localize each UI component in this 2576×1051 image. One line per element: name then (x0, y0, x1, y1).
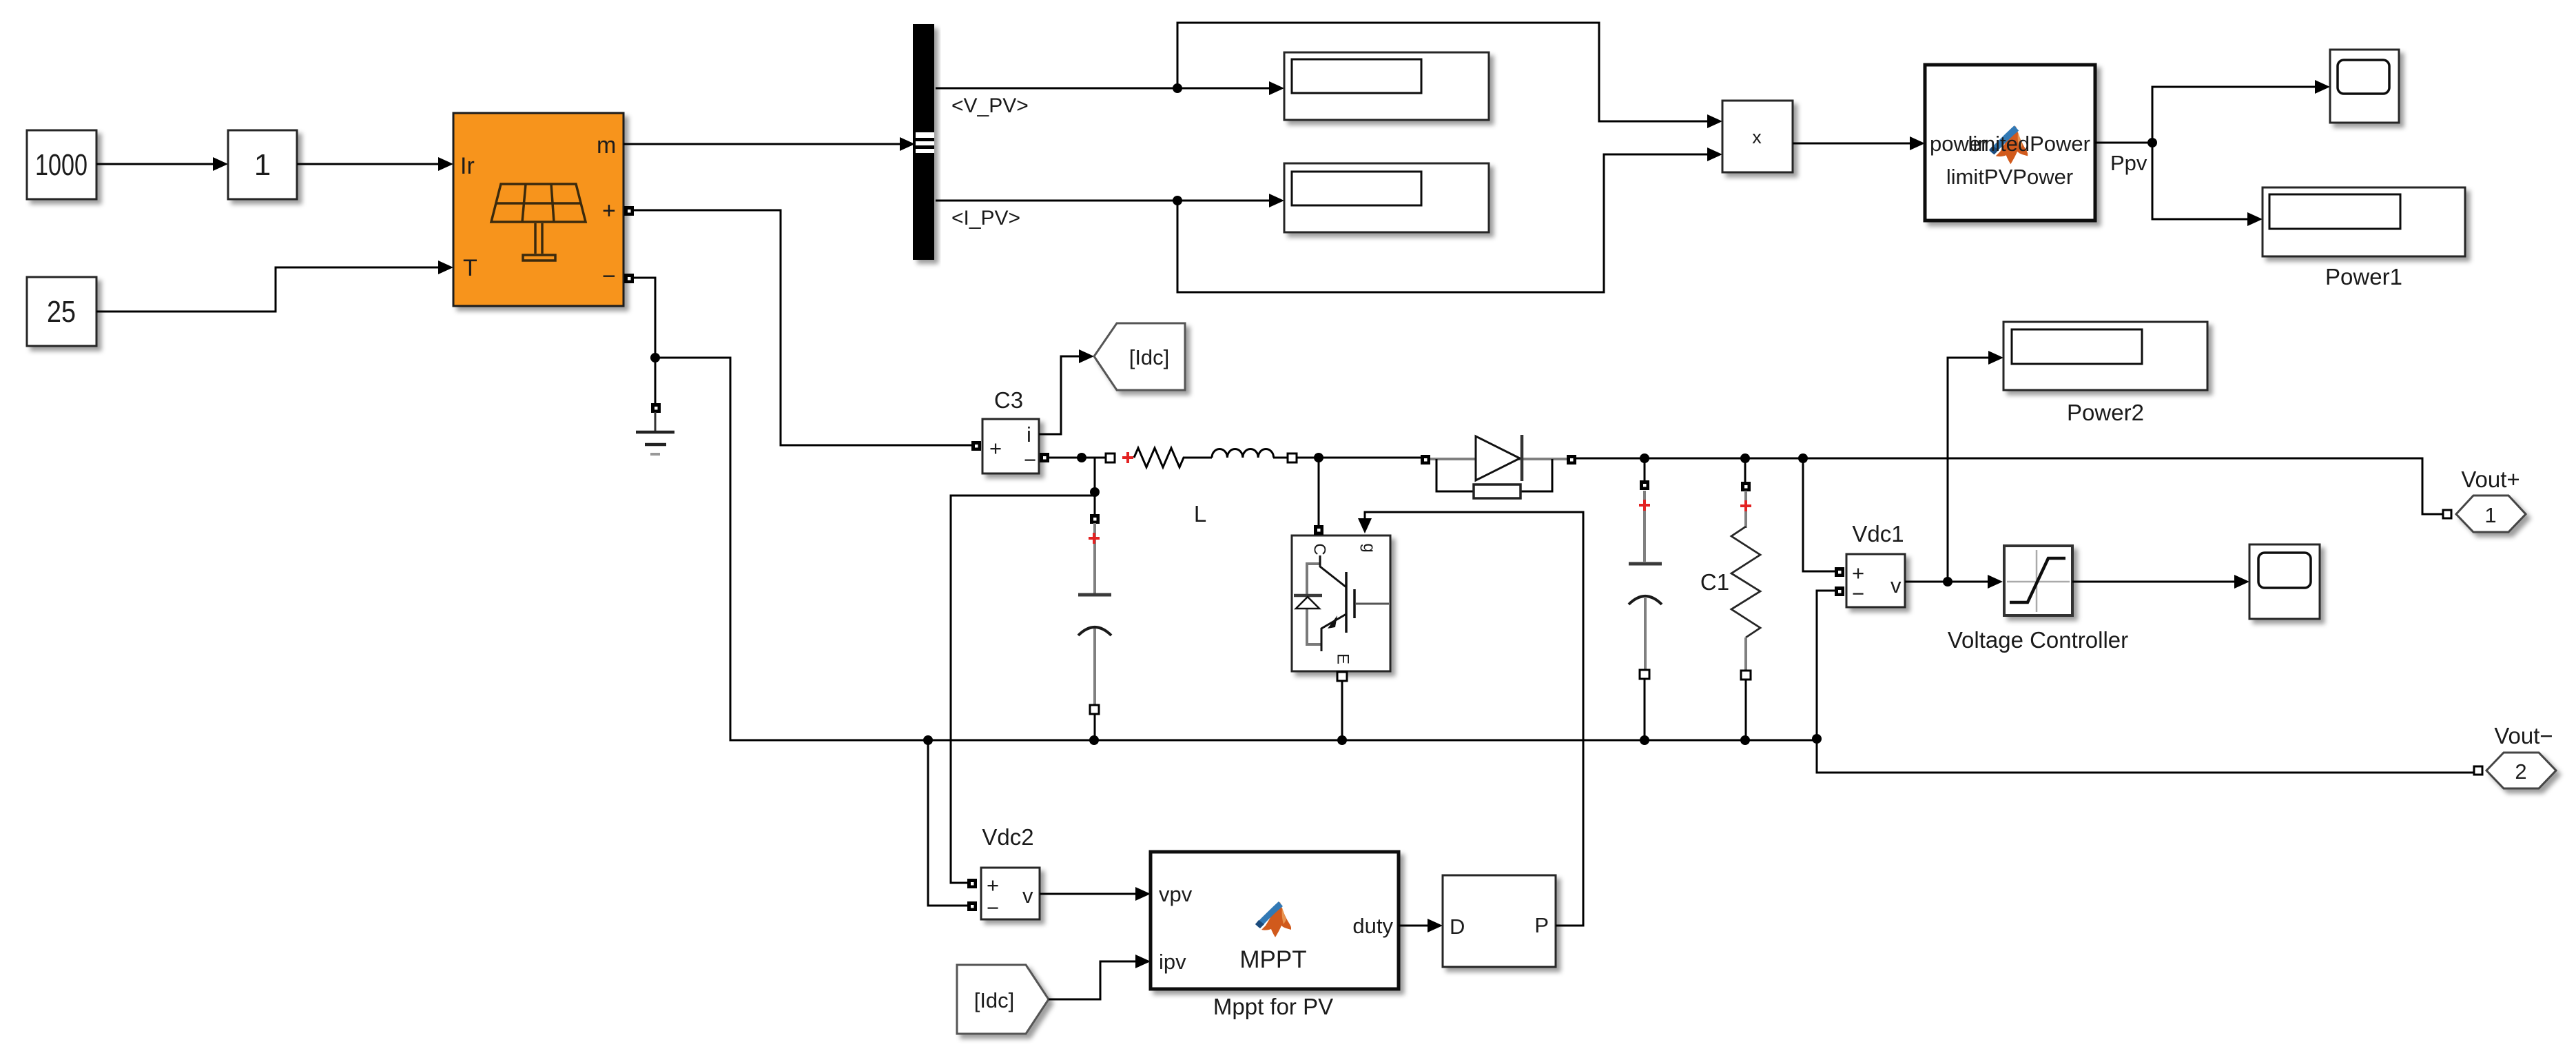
node PV minus junction (650, 353, 660, 363)
wire PV - to ground node (632, 278, 655, 407)
MATLAB function block MPPT (Mppt for PV) (1151, 852, 1399, 989)
arrowhead into IGBT gate (1358, 518, 1372, 533)
svg-text:m: m (597, 132, 616, 159)
svg-text:Vdc2: Vdc2 (982, 824, 1033, 850)
svg-text:E: E (1334, 653, 1352, 664)
svg-text:Ir: Ir (460, 153, 475, 179)
svg-text:1000: 1000 (35, 148, 87, 182)
IGBT block with antiparallel diode (1292, 535, 1390, 671)
node after C3 (1077, 453, 1086, 462)
svg-text:D: D (1450, 915, 1465, 939)
svg-text:Power1: Power1 (2325, 264, 2402, 289)
output port 1 Vout+ (2456, 496, 2526, 532)
resistor zigzag (1134, 448, 1212, 467)
svg-text:−: − (602, 263, 616, 289)
node rail output cap junction (1640, 735, 1649, 745)
internal diode branch (1307, 564, 1321, 644)
node output cap junction (1640, 453, 1649, 463)
svg-text:duty: duty (1352, 914, 1393, 938)
svg-text:<V_PV>: <V_PV> (951, 94, 1029, 117)
wire PV + to current sensor C3 (632, 210, 971, 445)
from tag [Idc] (957, 965, 1049, 1034)
saturation block Voltage Controller (2004, 546, 2072, 615)
node input cap top (1090, 487, 1100, 497)
wire P output to IGBT gate (1365, 512, 1583, 926)
node rail input cap junction (1089, 735, 1099, 745)
wire input cap node to Vdc2 + (951, 496, 1095, 883)
node rail Vdc2 junction (923, 735, 933, 745)
wire Ppv to scope (2152, 87, 2315, 143)
constant block 25 (temperature value) (27, 277, 96, 346)
svg-text:−: − (1024, 448, 1036, 472)
goto tag [Idc] (1094, 323, 1185, 390)
load resistor C1 branch (1731, 458, 1760, 740)
svg-text:x: x (1752, 127, 1762, 147)
MATLAB logo icon (1255, 901, 1291, 937)
wire bus I_PV to display1 (936, 200, 1270, 202)
ground symbol (636, 412, 674, 454)
wire Vdc1 - down to Vout- rail (1817, 591, 2474, 773)
ground terminal square (651, 403, 661, 413)
wire L to IGBT/diode node (1297, 457, 1421, 459)
IGBT symbol (1320, 555, 1346, 587)
IGBT collector terminal square (1314, 525, 1323, 535)
scope1 block (2249, 544, 2320, 619)
svg-text:<I_PV>: <I_PV> (951, 207, 1020, 229)
svg-text:v: v (1890, 573, 1902, 598)
svg-text:P: P (1534, 913, 1549, 937)
MATLAB logo icon (1989, 125, 2028, 164)
svg-text:−: − (1852, 582, 1864, 606)
svg-text:g: g (1360, 543, 1379, 552)
arrowhead into bus selector (900, 137, 915, 151)
node Ppv junction (2147, 138, 2157, 147)
wire from tag to MPPT ipv (1049, 961, 1135, 999)
voltage sensor Vdc1 (1846, 554, 1905, 607)
wire PV minus node to bottom rail (655, 358, 1817, 740)
node Vdc1 output junction (1943, 577, 1952, 586)
wire IGBT emitter to bottom rail (1341, 681, 1343, 740)
snubber loop (1436, 459, 1474, 491)
svg-text:v: v (1022, 884, 1033, 908)
arrowhead into T (438, 261, 453, 274)
svg-text:i: i (1027, 422, 1031, 447)
C3 + terminal square (971, 441, 981, 451)
inductor coils (1212, 449, 1274, 458)
voltage sensor Vdc2 (967, 879, 977, 888)
wire Vdc2 v to MPPT vpv (1040, 893, 1135, 895)
output port square Vout+ (2443, 510, 2451, 518)
wire Ppv from limitPVPower (2095, 142, 2152, 144)
svg-text:Vdc1: Vdc1 (1852, 521, 1904, 547)
input capacitor branch C2 (1078, 514, 1111, 740)
scope block (2330, 50, 2399, 123)
output port square Vout- (2474, 766, 2482, 775)
wire PV m output to bus selector (624, 143, 901, 145)
wire MPPT duty to D input (1399, 925, 1428, 927)
svg-text:25: 25 (47, 295, 76, 329)
node I_PV junction (1173, 196, 1182, 205)
arrowhead into gain (213, 157, 228, 171)
PV + terminal square (624, 206, 634, 216)
product block x (1722, 101, 1793, 172)
wire C3 i output to goto tag (1039, 356, 1079, 434)
series RL branch L (1106, 448, 1297, 467)
PV - terminal square (624, 274, 634, 283)
constant block 1000 (irradiance value) (27, 130, 96, 199)
svg-text:[Idc]: [Idc] (1129, 345, 1170, 369)
node bottom rail end junction (1812, 734, 1822, 744)
diode triangle (1476, 436, 1520, 480)
C3 - terminal square (1040, 453, 1049, 462)
diode cathode bar (1521, 435, 1524, 481)
IGBT emitter terminal square (1337, 672, 1347, 681)
svg-text:[Idc]: [Idc] (974, 988, 1015, 1012)
display block Power1 (2263, 187, 2465, 256)
svg-text:+: + (987, 873, 999, 897)
svg-text:Ppv: Ppv (2110, 151, 2147, 175)
wire V_PV junction to product input 1 (1177, 23, 1709, 121)
wire gain to PV Ir input (297, 163, 438, 165)
svg-text:T: T (463, 255, 477, 281)
svg-text:MPPT: MPPT (1239, 946, 1306, 973)
wire rail to Vdc2 - (928, 740, 967, 906)
node V_PV junction (1173, 83, 1182, 93)
svg-text:+: + (602, 198, 616, 224)
wire C3 minus to inductor branch (1049, 457, 1105, 459)
svg-text:vpv: vpv (1159, 882, 1193, 906)
svg-text:2: 2 (2515, 759, 2526, 784)
display block Power2 (2003, 322, 2207, 390)
wire I_PV junction to product input 2 (1177, 154, 1709, 292)
svg-text:Vout+: Vout+ (2461, 467, 2520, 492)
svg-text:limitedPower: limitedPower (1968, 132, 2090, 156)
MATLAB function block limitPVPower (1925, 65, 2095, 221)
display block for V_PV (1284, 52, 1489, 120)
svg-text:Vout−: Vout− (2494, 723, 2553, 748)
wire 1000 to gain block (96, 163, 214, 165)
bus selector block (913, 24, 934, 260)
svg-text:Mppt for PV: Mppt for PV (1213, 994, 1333, 1019)
node L-IGBT junction (1314, 453, 1323, 462)
arrowhead into Ir (438, 157, 453, 171)
wire junction to IGBT collector (1318, 458, 1320, 525)
svg-text:C3: C3 (994, 387, 1023, 413)
solar panel icon (491, 184, 586, 261)
wire Ppv to Power1 display (2152, 143, 2247, 219)
wire Vdc1 v to voltage controller (1905, 581, 1988, 583)
node Vdc1 junction (1798, 453, 1808, 463)
output port 2 Vout- (2486, 753, 2556, 788)
subsystem block D to P (1443, 875, 1556, 967)
display1 block for I_PV (1284, 163, 1489, 232)
wire 25 to PV T input (96, 267, 438, 312)
svg-text:1: 1 (254, 148, 271, 182)
svg-text:1: 1 (2484, 503, 2496, 527)
svg-text:Voltage Controller: Voltage Controller (1948, 627, 2128, 653)
node rail C1 junction (1740, 735, 1750, 745)
wire bus V_PV to display (936, 88, 1270, 90)
svg-text:+: + (989, 436, 1002, 460)
svg-text:L: L (1194, 501, 1206, 527)
diode D1 with RC snubber (1421, 435, 1576, 498)
svg-text:limitPVPower: limitPVPower (1946, 165, 2073, 189)
node rail IGBT emitter junction (1337, 735, 1347, 745)
svg-text:C: C (1310, 543, 1329, 555)
PV array block U1 (453, 113, 624, 306)
svg-text:Power2: Power2 (2067, 400, 2144, 425)
red + polarity mark (1122, 452, 1133, 463)
wire controller to scope1 (2072, 581, 2234, 583)
top output rail from diode to Vout+ (1576, 458, 2443, 514)
svg-text:−: − (987, 896, 999, 920)
wire junction down to input cap node (1094, 458, 1096, 514)
wire junction up to Power2 display (1948, 358, 1988, 582)
svg-text:ipv: ipv (1159, 950, 1186, 974)
gain/unit block 1 (228, 130, 297, 199)
wire rail to Vdc1 + (1803, 458, 1835, 571)
current sensor C3 (982, 419, 1039, 473)
node C1 junction (1740, 453, 1750, 463)
wire product to limitPVPower (1793, 143, 1910, 145)
output capacitor branch (1629, 458, 1662, 740)
svg-text:C1: C1 (1700, 569, 1729, 595)
